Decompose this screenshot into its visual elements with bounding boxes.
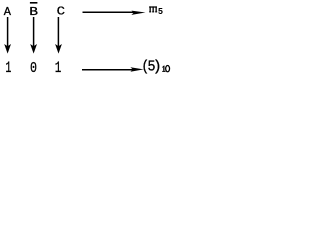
svg-text:1: 1	[55, 59, 62, 77]
arrowhead of top arrow	[131, 11, 145, 15]
arrowhead of down arrow under B	[30, 44, 37, 54]
wire: down arrow shaft under B	[33, 17, 35, 47]
arrowhead of down arrow under C	[55, 44, 62, 54]
wire: top horizontal arrow shaft to m5	[83, 11, 135, 13]
minterm label m	[149, 6, 157, 12]
svg-text:B: B	[29, 5, 38, 19]
wire: down arrow shaft under C	[57, 17, 59, 47]
subscript 10	[162, 66, 170, 72]
node B-bar overbar	[30, 2, 38, 4]
svg-text:): )	[153, 58, 162, 75]
arrowhead of bottom arrow	[130, 67, 143, 72]
arrowhead of down arrow under A	[4, 44, 11, 54]
svg-text:C: C	[57, 4, 65, 18]
svg-text:0: 0	[30, 59, 37, 77]
svg-text:5: 5	[158, 6, 164, 17]
svg-text:1: 1	[5, 59, 11, 77]
wire: down arrow shaft under A	[7, 17, 9, 47]
wire: bottom horizontal arrow shaft to decimal value	[82, 69, 133, 71]
